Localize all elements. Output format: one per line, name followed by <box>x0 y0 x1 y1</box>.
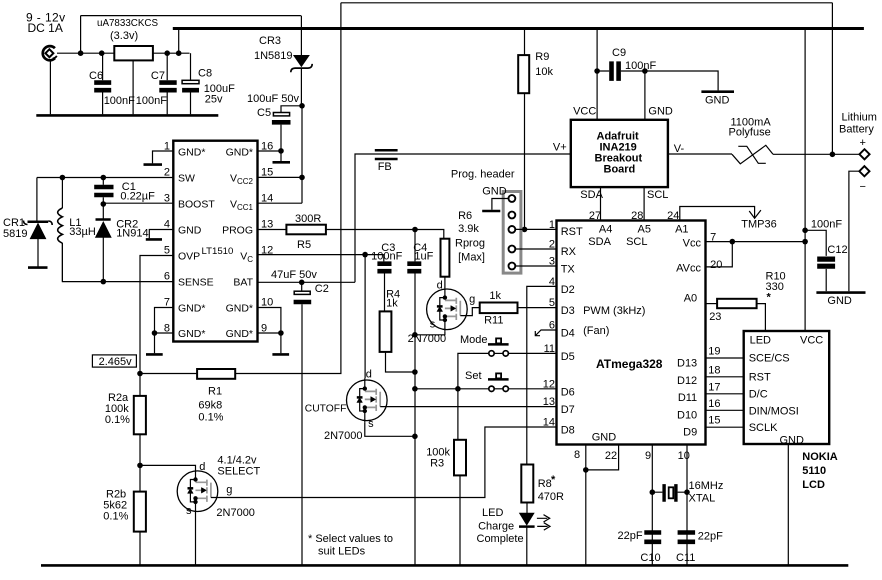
wire pin3 BOOST <box>103 202 173 204</box>
svg-text:−: − <box>860 181 866 193</box>
prog header pin tx <box>509 263 516 270</box>
resistor R6 Rprog 3.9k <box>441 210 486 288</box>
svg-text:1: 1 <box>549 219 555 231</box>
svg-text:C5: C5 <box>257 107 271 119</box>
svg-text:GND: GND <box>705 95 730 107</box>
svg-text:C2: C2 <box>315 283 329 295</box>
svg-text:470R: 470R <box>538 491 564 503</box>
svg-text:A1: A1 <box>675 223 688 235</box>
node pin15 junction <box>299 175 305 181</box>
wire raw input top line to CR3 <box>81 15 301 17</box>
svg-text:3: 3 <box>549 256 555 268</box>
capacitor C12 100nF <box>805 219 847 292</box>
svg-text:16MHz: 16MHz <box>689 480 724 492</box>
node C9 left <box>594 68 600 74</box>
node C9 right <box>642 68 648 74</box>
wire Q3 drain from divider <box>140 465 196 469</box>
prog header pin rst <box>509 226 516 233</box>
wire pin9 stub <box>651 445 653 566</box>
svg-text:PROG: PROG <box>222 224 253 236</box>
svg-text:18: 18 <box>708 364 720 376</box>
capacitor C7 <box>136 53 177 114</box>
svg-text:R1: R1 <box>208 386 222 398</box>
ground pin16 <box>280 151 282 161</box>
svg-text:suit LEDs: suit LEDs <box>318 546 366 558</box>
wire INA scl stub <box>643 187 645 220</box>
svg-text:Complete: Complete <box>477 533 524 545</box>
svg-text:* Select values to: * Select values to <box>308 533 393 545</box>
svg-text:GND*: GND* <box>226 302 253 314</box>
svg-text:d: d <box>437 279 443 291</box>
svg-text:Prog. header: Prog. header <box>451 169 515 181</box>
svg-text:XTAL: XTAL <box>689 493 716 505</box>
svg-text:6: 6 <box>164 271 170 283</box>
svg-text:100nF: 100nF <box>625 60 656 72</box>
svg-text:28: 28 <box>631 210 643 222</box>
regulator U2 uA7833CKCS <box>97 18 158 60</box>
svg-text:12: 12 <box>543 378 555 390</box>
wire D9 to SCLK <box>706 426 744 428</box>
wire Vcc pin7 <box>706 241 806 243</box>
wire D13 to SCE <box>706 357 744 359</box>
battery terminal minus <box>859 166 869 193</box>
capacitor C3 100nF <box>371 242 402 311</box>
node C5 branch <box>299 103 305 109</box>
capacitor C10 22pF <box>618 530 662 564</box>
svg-text:SENSE: SENSE <box>178 276 214 288</box>
svg-text:D5: D5 <box>561 351 575 363</box>
wire Q2 source to gnd line <box>365 422 415 436</box>
svg-text:g: g <box>469 293 475 305</box>
wire pin6 SENSE <box>62 243 173 282</box>
svg-text:TMP36: TMP36 <box>741 219 776 231</box>
wire INA vcc stub <box>596 29 598 120</box>
svg-text:GND: GND <box>592 431 617 443</box>
svg-text:uA7833CKCS: uA7833CKCS <box>97 18 158 29</box>
svg-text:A0: A0 <box>684 293 697 305</box>
resistor R9 10k <box>518 29 553 230</box>
svg-text:GND: GND <box>482 186 507 198</box>
TMP36 sensor arrow <box>741 210 776 230</box>
wire 3.3v drop to nokia vcc <box>804 29 806 332</box>
svg-text:D6: D6 <box>561 387 575 399</box>
wire jack to ground rail <box>49 61 51 114</box>
wire R11 to D3 <box>518 307 557 309</box>
transistor Q2 2N7000 CUTOFF <box>305 369 387 443</box>
svg-text:GND: GND <box>827 295 852 307</box>
node raw input junction <box>78 50 84 56</box>
transistor Q1 2N7000 Rprog-max <box>408 279 476 345</box>
svg-text:LCD: LCD <box>802 479 825 491</box>
svg-text:s: s <box>430 318 436 330</box>
svg-text:CR3: CR3 <box>259 35 281 47</box>
svg-text:GND: GND <box>780 435 805 447</box>
svg-text:GND: GND <box>648 106 673 118</box>
svg-text:C10: C10 <box>640 552 660 564</box>
svg-text:11: 11 <box>544 343 555 355</box>
wire jack to regulator input <box>57 52 114 54</box>
wire 3.3v rail riser <box>178 29 180 54</box>
wire pin24 A1 to TMP36 <box>680 207 755 221</box>
node C4 top <box>412 227 418 233</box>
capacitor C9 100nF <box>597 47 656 81</box>
svg-text:2N7000: 2N7000 <box>216 507 255 519</box>
svg-text:d: d <box>366 369 372 381</box>
svg-text:CUTOFF: CUTOFF <box>305 404 347 415</box>
svg-text:D7: D7 <box>561 404 575 416</box>
node C12 branch <box>802 228 808 234</box>
svg-text:*: * <box>551 474 556 486</box>
capacitor C11 22pF <box>676 531 723 565</box>
power input DC jack J1 <box>26 11 66 61</box>
IC U4 ATmega328 <box>557 221 706 445</box>
wire PROG to R6 corner <box>326 230 444 239</box>
prog header connector <box>451 169 521 274</box>
svg-text:2: 2 <box>549 239 555 251</box>
LED charge complete <box>477 503 551 565</box>
transistor Q3 2N7000 SELECT <box>177 455 260 520</box>
svg-text:6: 6 <box>549 320 555 332</box>
svg-text:100nF: 100nF <box>136 95 167 107</box>
pin numbers ATmega top <box>589 210 679 222</box>
wire pin14 stub <box>258 202 303 204</box>
svg-text:5: 5 <box>549 297 555 309</box>
node battery plus junction <box>830 152 836 158</box>
node Vcc rail junction <box>802 239 808 245</box>
svg-text:16: 16 <box>261 141 273 153</box>
svg-text:LT1510: LT1510 <box>202 246 234 257</box>
svg-text:Board: Board <box>604 164 636 176</box>
svg-text:5819: 5819 <box>3 228 27 240</box>
IC U1 LT1510 <box>173 141 257 342</box>
node 2.465v reference <box>92 355 136 368</box>
wire INA sda stub <box>600 187 602 220</box>
wire divider to R1 <box>140 373 197 375</box>
node R4 bottom <box>412 369 418 375</box>
svg-text:LED: LED <box>482 507 503 519</box>
svg-text:GND*: GND* <box>178 328 205 340</box>
svg-text:9: 9 <box>645 450 651 462</box>
svg-text:A5: A5 <box>638 223 651 235</box>
wire D10 to DIN <box>706 409 744 411</box>
ground pin1 <box>153 151 174 163</box>
wire Q1 gate to R11 <box>460 308 479 316</box>
wire Q1 source to gnd line <box>415 331 445 335</box>
node pin16 C5 junction <box>278 148 284 154</box>
wire Q3 gate to D8 riser <box>211 427 557 498</box>
node R9 to RST <box>522 227 528 233</box>
svg-text:100nF: 100nF <box>811 219 842 231</box>
resistor R10 330 <box>717 271 786 309</box>
wire pin10 stub <box>686 445 688 566</box>
svg-text:RST: RST <box>749 372 771 384</box>
wire V- to polyfuse <box>668 153 732 155</box>
capacitor C2 47uF 50v <box>271 269 329 565</box>
wire TX row <box>515 265 556 267</box>
wire pin13 PROG to R5 <box>258 229 287 231</box>
svg-text:*: * <box>767 292 772 304</box>
svg-text:10: 10 <box>678 450 690 462</box>
svg-text:R5: R5 <box>297 239 311 251</box>
wire pin12 VC <box>258 254 384 256</box>
svg-text:D12: D12 <box>677 375 697 387</box>
svg-text:R11: R11 <box>484 314 503 326</box>
svg-text:2.465v: 2.465v <box>99 356 133 368</box>
pushbutton Mode <box>458 334 557 389</box>
wire AVcc pin20 <box>706 242 733 267</box>
wire pin16 stub <box>258 150 282 152</box>
svg-text:R8: R8 <box>538 478 552 490</box>
svg-text:10: 10 <box>261 297 273 309</box>
IC U3 Adafruit INA219 <box>553 106 685 201</box>
ground bottom rail <box>41 564 848 567</box>
svg-text:GND*: GND* <box>226 146 253 158</box>
svg-text:LED: LED <box>750 335 771 347</box>
ground pins 10 9 <box>258 308 281 354</box>
wire pin22 gnd stub <box>586 445 619 470</box>
pin numbers ATmega right <box>708 232 722 427</box>
wire Q2 gate to D7 <box>380 406 556 408</box>
svg-text:D2: D2 <box>561 284 575 296</box>
wire pin2 SW <box>37 177 173 179</box>
svg-text:GND*: GND* <box>178 146 205 158</box>
svg-text:NOKIA: NOKIA <box>802 451 838 463</box>
svg-text:19: 19 <box>708 345 720 357</box>
svg-text:0.1%: 0.1% <box>198 412 223 424</box>
svg-text:10k: 10k <box>535 66 553 78</box>
prog header pin gnd <box>509 195 516 202</box>
pin numbers LT1510 left <box>164 141 170 335</box>
crystal X1 16MHz <box>652 480 723 505</box>
svg-text:V+: V+ <box>553 142 567 154</box>
svg-text:C6: C6 <box>89 70 103 82</box>
wire D4 fan arrow <box>535 330 556 336</box>
capacitor C8 electrolytic <box>182 53 235 114</box>
wire CR3 to VCC2 <box>301 106 303 203</box>
ground C12 battery minus <box>816 291 865 294</box>
node OVP divider junction <box>137 371 143 377</box>
wire nokia gnd stub <box>787 444 789 565</box>
svg-text:[Max]: [Max] <box>458 251 485 263</box>
svg-text:(Fan): (Fan) <box>583 325 609 337</box>
svg-text:RX: RX <box>561 246 577 258</box>
svg-text:D3: D3 <box>561 305 575 317</box>
svg-text:0.1%: 0.1% <box>103 510 128 522</box>
resistor R2b 5k62 <box>103 489 146 565</box>
wire R10 to nokia led pin <box>757 304 766 331</box>
wire polyfuse to battery <box>773 153 860 155</box>
svg-text:25v: 25v <box>205 94 223 106</box>
wire D11 to DC <box>706 393 744 395</box>
svg-text:D11: D11 <box>678 392 697 404</box>
pin numbers ATmega left <box>543 219 555 429</box>
capacitor C6 <box>89 53 135 114</box>
svg-text:4: 4 <box>549 276 555 288</box>
svg-text:D10: D10 <box>677 409 697 421</box>
node Q1 source gnd <box>412 332 418 338</box>
svg-text:13: 13 <box>261 219 273 231</box>
node xtal left <box>650 489 656 495</box>
wire Q2 drain from VC <box>364 255 366 379</box>
resistor R2a 100k <box>105 374 146 435</box>
node AVcc junction <box>730 239 736 245</box>
svg-text:Rprog: Rprog <box>455 237 485 249</box>
svg-text:DC 1A: DC 1A <box>28 21 63 35</box>
svg-text:d: d <box>199 461 205 473</box>
node CUTOFF drain on VC <box>362 252 368 258</box>
node Set gnd <box>412 386 418 392</box>
svg-text:C11: C11 <box>676 552 695 564</box>
resistor R5 300R <box>286 213 326 251</box>
wire A0 to R10 <box>706 303 718 305</box>
wire regulator output <box>153 52 190 54</box>
svg-text:300R: 300R <box>295 213 321 225</box>
node Q2 source gnd <box>412 434 418 440</box>
svg-text:GND*: GND* <box>178 302 205 314</box>
svg-text:2N7000: 2N7000 <box>324 430 363 442</box>
resistor R4 1k <box>380 289 415 373</box>
wire battery minus to gnd <box>849 171 860 291</box>
pin numbers LT1510 right <box>261 141 273 335</box>
wire Q3 source to rail <box>195 513 197 565</box>
resistor R11 1k <box>480 290 518 326</box>
svg-text:24: 24 <box>667 210 679 222</box>
svg-text:RST: RST <box>561 226 583 238</box>
svg-text:100nF: 100nF <box>371 251 402 263</box>
svg-text:Set: Set <box>465 370 482 382</box>
svg-text:14: 14 <box>261 193 273 205</box>
svg-text:15: 15 <box>708 415 720 427</box>
svg-text:5110: 5110 <box>802 465 826 477</box>
node Mode gnd riser <box>455 386 461 392</box>
svg-text:VCC: VCC <box>573 106 596 118</box>
node pin8 pin22 junction <box>583 467 589 473</box>
svg-text:D13: D13 <box>677 358 697 370</box>
svg-text:Vcc: Vcc <box>683 237 702 249</box>
resistor R3 100k <box>426 389 466 565</box>
node C6 top <box>99 50 105 56</box>
node L1 top <box>60 175 66 181</box>
ferrite bead FB <box>375 150 398 173</box>
svg-text:8: 8 <box>574 449 580 461</box>
svg-text:D8: D8 <box>561 425 575 437</box>
wire pin11 BAT <box>258 281 356 283</box>
svg-text:SW: SW <box>178 172 195 184</box>
capacitor C5 100uF 50v <box>247 93 302 151</box>
svg-text:s: s <box>368 418 374 430</box>
wire pin5 OVP <box>140 256 173 374</box>
diode CR3 1N5819 <box>254 16 312 106</box>
svg-text:69k8: 69k8 <box>198 400 222 412</box>
svg-text:TX: TX <box>561 264 576 276</box>
svg-text:Battery: Battery <box>839 124 874 136</box>
wire regulator gnd stub <box>132 60 134 114</box>
svg-text:Polyfuse: Polyfuse <box>729 127 771 139</box>
svg-text:C7: C7 <box>151 70 165 82</box>
svg-text:1N914: 1N914 <box>116 228 148 240</box>
wire R1 to battery sense riser <box>235 3 341 374</box>
3.3v power rail <box>173 27 864 30</box>
svg-text:VCC: VCC <box>800 335 823 347</box>
svg-text:Charge: Charge <box>478 520 514 532</box>
node R2a R2b junction <box>139 434 141 491</box>
svg-text:DIN/MOSI: DIN/MOSI <box>749 405 799 417</box>
svg-text:ATmega328: ATmega328 <box>596 357 663 371</box>
svg-text:PWM (3kHz): PWM (3kHz) <box>583 305 645 317</box>
prog header pin rx <box>509 246 516 253</box>
svg-text:OVP: OVP <box>178 250 200 262</box>
svg-text:100nF: 100nF <box>104 95 135 107</box>
ground C9 <box>645 71 718 90</box>
svg-text:Mode: Mode <box>460 334 488 346</box>
svg-text:s: s <box>186 505 192 517</box>
svg-text:FB: FB <box>378 161 392 173</box>
pin numbers ATmega bottom <box>574 449 690 462</box>
svg-text:R9: R9 <box>535 51 549 63</box>
svg-text:C8: C8 <box>198 68 212 80</box>
wire INA gnd stub <box>644 71 646 120</box>
IC U5 Nokia 5110 LCD <box>744 331 838 491</box>
svg-text:SCE/CS: SCE/CS <box>749 353 790 365</box>
wire RST row <box>515 228 556 230</box>
svg-text:0.1%: 0.1% <box>105 414 130 426</box>
wire D2 to R8 riser <box>527 286 557 464</box>
svg-text:(3.3v): (3.3v) <box>110 30 138 42</box>
battery terminal plus <box>839 112 877 160</box>
capacitor C4 1uF <box>407 230 433 566</box>
svg-text:7: 7 <box>164 297 170 309</box>
svg-text:SCL: SCL <box>626 236 647 248</box>
svg-text:14: 14 <box>543 417 555 429</box>
wire pin8 gnd stub <box>585 445 587 565</box>
wire battery sense drop <box>831 3 833 155</box>
svg-text:16: 16 <box>708 398 720 410</box>
svg-text:20: 20 <box>710 259 722 271</box>
node rail riser junction <box>176 50 182 56</box>
svg-text:100uF 50v: 100uF 50v <box>247 93 299 105</box>
wire RX row <box>515 248 556 250</box>
svg-text:D9: D9 <box>683 427 697 439</box>
svg-text:15: 15 <box>261 167 273 179</box>
prog header pin 2 <box>509 212 516 219</box>
node xtal right <box>684 489 690 495</box>
svg-text:17: 17 <box>708 381 720 393</box>
svg-text:22pF: 22pF <box>618 530 643 542</box>
svg-text:C12: C12 <box>827 244 847 256</box>
svg-text:BAT: BAT <box>233 276 253 288</box>
svg-text:C9: C9 <box>612 47 626 59</box>
svg-text:3.9k: 3.9k <box>458 223 479 235</box>
wire SW to CR1 <box>36 178 38 222</box>
svg-text:23: 23 <box>709 311 721 323</box>
wire D12 to RST <box>706 376 744 378</box>
svg-text:22: 22 <box>605 450 617 462</box>
node C2 top <box>299 280 305 286</box>
node C1 top <box>101 175 107 181</box>
battery sense top line <box>341 2 833 4</box>
svg-text:V-: V- <box>674 143 685 155</box>
diode CR1 5819 schottky <box>3 217 52 268</box>
svg-text:BOOST: BOOST <box>178 198 215 210</box>
capacitor C1 0.22uF <box>94 178 155 205</box>
svg-text:AVcc: AVcc <box>676 263 701 275</box>
svg-text:4: 4 <box>164 219 170 231</box>
svg-text:SELECT: SELECT <box>217 465 260 477</box>
svg-text:GND*: GND* <box>226 328 253 340</box>
svg-text:GND: GND <box>178 224 202 236</box>
svg-text:D4: D4 <box>561 328 575 340</box>
svg-text:13: 13 <box>543 396 555 408</box>
